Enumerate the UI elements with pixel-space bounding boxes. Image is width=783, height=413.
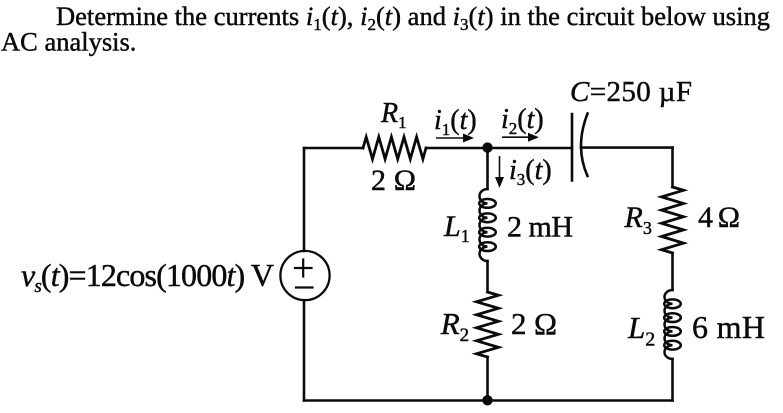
current arrow i1 <box>436 134 474 143</box>
svg-text:AC analysis.: AC analysis. <box>1 27 136 57</box>
svg-text:R2: R2 <box>440 306 469 346</box>
node A (top junction) <box>482 142 492 152</box>
wire left vertical bottom <box>303 300 306 400</box>
svg-text:2 mH: 2 mH <box>507 211 573 244</box>
svg-text:L2: L2 <box>627 310 655 351</box>
current arrow i2 <box>502 133 539 142</box>
inductor L2 <box>664 290 681 359</box>
voltage source vs <box>280 251 329 300</box>
wire R2 to bottom node <box>486 357 489 401</box>
wire top-left segment <box>304 147 363 150</box>
wire right vertical: top corner to R3 <box>671 148 674 187</box>
wire bottom <box>304 399 673 402</box>
wire R1 to capacitor <box>426 147 572 150</box>
svg-text:C=250 µF: C=250 µF <box>570 76 692 108</box>
resistor R1 <box>363 137 426 159</box>
svg-text:i1(t): i1(t) <box>434 105 477 139</box>
wire capacitor to right corner <box>581 146 673 149</box>
svg-text:Determine the currents i1(t),: Determine the currents i1(t), i2(t) and … <box>56 1 770 34</box>
svg-text:vs(t)=12cos(1000t) V: vs(t)=12cos(1000t) V <box>21 257 274 297</box>
svg-text:i2(t): i2(t) <box>501 104 544 138</box>
svg-text:6 mH: 6 mH <box>692 309 765 345</box>
wire L2 to bottom corner <box>671 359 674 401</box>
wire L1 to R2 <box>486 261 489 292</box>
wire left vertical top <box>303 148 306 251</box>
current arrow i3 <box>495 156 504 188</box>
wire middle branch: node to L1 <box>486 148 489 189</box>
capacitor C <box>572 114 588 181</box>
resistor R3 <box>662 187 684 253</box>
svg-text:L1: L1 <box>443 210 470 246</box>
svg-text:i3(t): i3(t) <box>509 155 552 189</box>
svg-text:R3: R3 <box>624 201 652 238</box>
svg-text:4 Ω: 4 Ω <box>698 201 740 234</box>
resistor R2 <box>477 292 499 357</box>
svg-text:2 Ω: 2 Ω <box>371 164 416 197</box>
svg-text:2 Ω: 2 Ω <box>511 306 557 341</box>
node B (bottom junction) <box>482 395 492 405</box>
wire R3 to L2 <box>671 253 674 290</box>
inductor L1 <box>479 189 496 261</box>
svg-text:R1: R1 <box>380 98 407 132</box>
